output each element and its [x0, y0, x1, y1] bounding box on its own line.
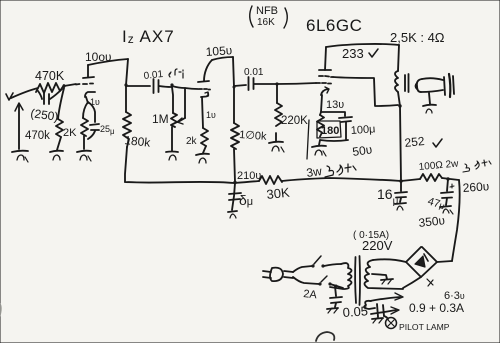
label 100ohm 2W kana	[418, 159, 491, 173]
node 210V junction	[233, 181, 237, 185]
node pot top junction	[170, 83, 173, 86]
triode V1a grid	[76, 84, 93, 85]
svg-text:(250): (250)	[30, 106, 60, 124]
capacitor C9 0.05	[330, 285, 342, 308]
ground C6	[228, 211, 237, 218]
svg-text:1∅0k: 1∅0k	[239, 129, 268, 143]
transformer T2 heater winding	[364, 301, 375, 309]
transformer T2 secondary	[365, 260, 404, 289]
svg-text:260ʋ: 260ʋ	[462, 179, 490, 195]
wire rectifier bottom to secondary	[403, 277, 421, 288]
svg-text:δμ: δμ	[239, 192, 253, 208]
input terminal arrow	[15, 103, 23, 149]
potentiometer VR1 1M body	[171, 87, 177, 151]
bridge rectifier D1	[406, 247, 437, 277]
svg-text:Iz AX7: Iz AX7	[122, 27, 175, 46]
triode V1a cathode	[85, 92, 95, 103]
ground heater	[372, 318, 383, 323]
transformer T1 OPT primary	[395, 45, 400, 106]
wire plug to switch top	[293, 266, 312, 272]
triode V1a plate	[83, 65, 94, 78]
wire 100v rail	[88, 59, 128, 65]
wire 260V down to rectifier	[452, 180, 460, 261]
node 260V junction	[446, 177, 449, 180]
svg-text:2A: 2A	[303, 288, 318, 301]
node grid6L6 junction	[275, 82, 278, 85]
svg-text:350ʋ: 350ʋ	[418, 213, 446, 230]
svg-text:16K: 16K	[257, 17, 275, 28]
wire 100ohm to 260V	[442, 178, 459, 180]
capacitor C1 250p parallel	[38, 89, 62, 104]
svg-text:233: 233	[342, 46, 364, 61]
capacitor C4 0.01 coupling2	[234, 77, 276, 90]
svg-text:50ʋ: 50ʋ	[351, 142, 373, 159]
resistor R5 2K cathode2	[201, 128, 208, 153]
svg-text:252: 252	[404, 134, 426, 150]
resistor R6 180K plate2	[231, 123, 239, 182]
wire rectifier to 260V line	[437, 261, 452, 262]
note NFB 16K	[250, 5, 288, 28]
speaker SP1	[416, 74, 455, 97]
wire 105v rail	[212, 57, 233, 60]
transformer T1 core	[405, 74, 409, 92]
svg-text:220K: 220K	[281, 115, 308, 127]
heater arrow top	[370, 293, 403, 301]
svg-text:13ʋ: 13ʋ	[326, 99, 344, 111]
wire rectifier left to secondary	[373, 259, 406, 262]
svg-text:6L6GC: 6L6GC	[306, 16, 362, 35]
ground R2	[50, 151, 63, 160]
wire plug to switch bottom	[293, 277, 319, 284]
ground C7	[395, 203, 406, 210]
resistor R7 220K grid	[275, 84, 282, 141]
wire input to R1	[11, 88, 38, 98]
svg-text:2K: 2K	[63, 127, 77, 139]
svg-text:NFB: NFB	[256, 5, 278, 17]
capacitor C7 16u	[395, 181, 407, 202]
wire node A to grid1	[64, 84, 76, 86]
resistor R1 470K series	[36, 83, 64, 93]
wire 233v rail	[326, 44, 399, 47]
triode V1b grid	[199, 88, 210, 91]
svg-text:100Ω 2w: 100Ω 2w	[418, 159, 459, 173]
node A junction	[62, 84, 65, 87]
node plate2 junction	[233, 86, 236, 89]
switch S1 top	[311, 256, 324, 268]
capacitor C3 0.01 coupling	[126, 79, 171, 93]
svg-text:470K: 470K	[35, 69, 65, 83]
transformer T2 primary	[330, 263, 352, 289]
wire R4 to B+ rail	[125, 147, 127, 182]
svg-text:220V: 220V	[362, 238, 393, 253]
heater leads down	[377, 304, 384, 317]
node plate1 junction	[124, 83, 127, 86]
capacitor C6 8u	[229, 183, 241, 210]
ground R7	[269, 142, 284, 152]
capacitor C2 25u	[88, 102, 99, 139]
wire plate1 node vertical	[126, 59, 128, 112]
svg-text:2k: 2k	[186, 136, 198, 147]
triode V1b cathode	[201, 92, 209, 128]
wire screen to 252V	[333, 77, 398, 106]
label 180 boxed	[317, 121, 341, 138]
resistor R10 100ohm	[420, 174, 442, 181]
wire rail 30K to 252V node	[282, 178, 401, 181]
resistor R4 180K plate1	[123, 112, 131, 147]
ground input	[12, 151, 28, 162]
ground C8	[440, 206, 453, 214]
svg-text:25μ: 25μ	[100, 124, 115, 136]
heater arrow bottom	[371, 307, 399, 314]
pilot lamp LP1	[384, 316, 397, 329]
ground R5	[196, 154, 209, 163]
capacitor C8 47u	[441, 179, 454, 205]
svg-text:0.9 + 0.3A: 0.9 + 0.3A	[409, 301, 464, 315]
leader line 3W note	[307, 120, 309, 159]
wire plate2 node vertical	[233, 57, 234, 123]
triode V1b plate	[198, 60, 212, 82]
paper smudge left edge	[0, 303, 2, 317]
resistor R8 180ohm cathode	[317, 112, 324, 145]
svg-text:PILOT LAMP: PILOT LAMP	[399, 322, 450, 332]
secondary center tap	[372, 274, 393, 284]
resistor R2 470k shunt	[56, 88, 64, 150]
svg-text:1ʋ: 1ʋ	[206, 110, 216, 120]
wire to 6L6 grid	[277, 83, 316, 84]
pentode V2 6L6GC plate	[319, 47, 331, 70]
node 252V junction	[399, 179, 403, 183]
transformer T2 core	[355, 256, 360, 305]
wire pot to grid2	[172, 86, 198, 89]
plug P1 AC	[263, 268, 293, 282]
potentiometer VR1 wiper arrow	[177, 88, 185, 124]
svg-text:2,5K : 4Ω: 2,5K : 4Ω	[390, 30, 445, 45]
svg-text:0.01: 0.01	[244, 67, 264, 78]
label 233v check	[342, 46, 378, 61]
switch S1 bottom	[318, 276, 331, 286]
input label V	[6, 93, 13, 100]
ground R8	[312, 146, 326, 156]
scribble note above pot	[169, 69, 183, 78]
svg-text:1M: 1M	[152, 112, 169, 126]
ground C9	[327, 308, 338, 313]
capacitor C5 100u	[320, 112, 352, 141]
wire switch to primary	[324, 264, 343, 288]
resistor R3 2K cathode1	[81, 102, 88, 149]
svg-text:180: 180	[321, 125, 339, 137]
mark x below rectifier	[427, 279, 433, 286]
node screen junction	[398, 104, 401, 107]
paper smudge bottom arc	[316, 332, 334, 341]
pentode V2 control grid	[316, 82, 331, 85]
wire B+ rail	[125, 181, 259, 183]
svg-text:470k: 470k	[25, 130, 50, 142]
resistor R9 30K	[259, 176, 282, 184]
ground speaker	[423, 93, 436, 113]
pentode V2 cathode	[321, 87, 329, 112]
label 3W kana note	[305, 164, 356, 180]
svg-text:100μ: 100μ	[350, 123, 375, 137]
ground VR1	[166, 152, 178, 161]
label 252v check	[404, 134, 442, 150]
svg-text:30K: 30K	[266, 185, 291, 202]
wire rail to 100ohm	[401, 179, 420, 181]
wire OPT to B+ rail	[400, 106, 401, 181]
pentode V2 screen grid	[319, 76, 333, 77]
ground R3	[77, 151, 91, 161]
